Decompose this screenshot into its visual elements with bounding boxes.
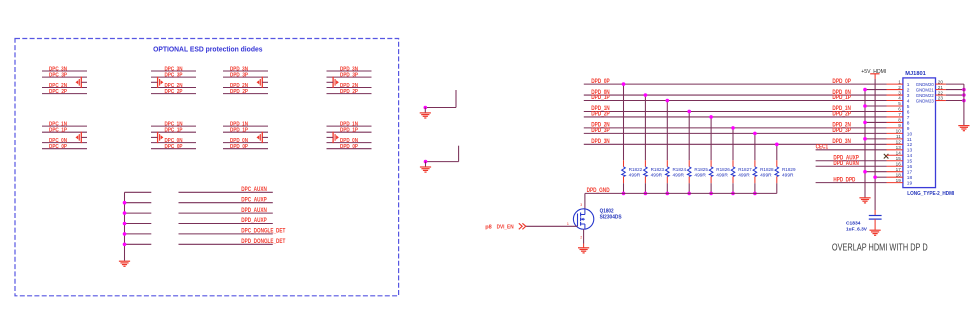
wire DPD_2P (ESD group 3): [223, 93, 268, 95]
svg-text:DPC_0N: DPC_0N: [49, 138, 67, 144]
wire +5V vertical: [874, 79, 876, 210]
svg-text:OPTIONAL ESD protection diodes: OPTIONAL ESD protection diodes: [153, 45, 262, 54]
wire pin 22 to shield gnd: [946, 94, 964, 96]
wire DPD_0P (net): [584, 83, 887, 85]
junction R1826 bottom: [709, 192, 713, 196]
resistor R1827 499R: [731, 128, 735, 193]
ESD diode pair (group 1): [76, 77, 88, 88]
wire DPD_3P (net): [584, 132, 887, 134]
svg-text:DPC_2P: DPC_2P: [165, 89, 183, 95]
junction GND pin 2: [863, 88, 867, 92]
svg-text:DPC_3P: DPC_3P: [165, 72, 183, 78]
junction R1825 bottom: [687, 192, 691, 196]
svg-text:DPC_1N: DPC_1N: [49, 121, 67, 127]
wire DPD_2N (ESD group 4): [327, 87, 372, 89]
svg-text:DPD_0P: DPD_0P: [340, 144, 358, 150]
wire: bus stub row 2: [125, 202, 152, 204]
svg-text:DPD_3P: DPD_3P: [591, 128, 610, 134]
svg-text:DPC_DONGLE_DET: DPC_DONGLE_DET: [241, 229, 285, 235]
wire: ground 2 drop: [425, 162, 427, 167]
svg-text:499R: 499R: [716, 172, 728, 178]
wire DPD_1N (net): [584, 110, 887, 112]
junction pin 23: [962, 99, 966, 103]
svg-text:C1834: C1834: [846, 221, 861, 227]
svg-text:DPD_1P: DPD_1P: [230, 128, 248, 134]
svg-text:19: 19: [907, 181, 913, 187]
ESD diode pair (group 5): [76, 132, 88, 143]
wire DPD_AUXP: [816, 160, 887, 162]
junction: [123, 222, 127, 226]
svg-text:DPC_3N: DPC_3N: [165, 66, 183, 72]
connector MJ1801 body: [903, 78, 936, 188]
junction: [424, 106, 428, 110]
junction: [123, 243, 127, 247]
wire pin 8 to GND: [865, 121, 887, 123]
svg-text:SI2304DS: SI2304DS: [600, 215, 623, 221]
svg-text:499R: 499R: [694, 172, 706, 178]
svg-text:1: 1: [567, 221, 570, 226]
wire DPC_2P (ESD group 2): [151, 93, 196, 95]
svg-text:2: 2: [898, 85, 901, 90]
wire DPD_AUXN: [816, 165, 887, 167]
wire DPD_AUXN: [179, 212, 273, 214]
wire DPD_1N (ESD group 7): [223, 125, 268, 127]
svg-text:DPD_3N: DPD_3N: [591, 139, 610, 145]
svg-text:18: 18: [907, 175, 913, 181]
svg-text:499R: 499R: [760, 172, 772, 178]
junction R1827 top: [731, 126, 735, 130]
pin 17 stub: [887, 171, 903, 173]
ground (shield): [958, 126, 969, 131]
svg-text:8: 8: [898, 118, 901, 123]
power +5V_HDMI: [861, 69, 886, 79]
wire: source to ground: [583, 229, 585, 243]
wire DPC_2P (ESD group 1): [42, 93, 87, 95]
wire DPD_1P (net): [584, 100, 887, 102]
wire DPC_0N (ESD group 6): [151, 142, 196, 144]
wire DPD_0P (ESD group 7): [223, 148, 268, 150]
wire DPC_1P (ESD group 5): [42, 131, 87, 133]
svg-text:DPD_GND: DPD_GND: [587, 188, 611, 194]
svg-text:DPC_2P: DPC_2P: [49, 89, 67, 95]
wire: bus stub row 5: [125, 233, 152, 235]
svg-text:DPD_3N: DPD_3N: [340, 66, 358, 72]
wire DPD_3N (net): [584, 143, 887, 145]
wire DPC_DONGLE_DET: [179, 233, 273, 235]
svg-text:R1826: R1826: [716, 167, 730, 173]
wire DPD_1P (ESD group 8): [327, 131, 372, 133]
svg-text:499R: 499R: [629, 172, 641, 178]
wire DPC_2N (ESD group 1): [42, 87, 87, 89]
pin 6 stub: [887, 110, 903, 112]
wire: stub to ground 1: [425, 90, 456, 108]
wire DPD_2N (net): [584, 127, 887, 129]
svg-text:499R: 499R: [651, 172, 663, 178]
pin 22 stub: [936, 94, 946, 96]
wire: ground 1 drop: [424, 108, 426, 113]
svg-text:17: 17: [907, 170, 913, 176]
wire DPC_1P (ESD group 6): [151, 131, 196, 133]
ESD diode pair (group 8): [327, 132, 339, 143]
svg-text:15: 15: [896, 156, 902, 161]
wire DPD_3N (ESD group 3): [223, 70, 268, 72]
resistor R1825 499R: [687, 111, 691, 193]
wire DPD_GND rail: [585, 193, 777, 209]
svg-text:DPC_AUXP: DPC_AUXP: [241, 197, 266, 203]
svg-text:2: 2: [907, 87, 910, 93]
ESD diode pair (group 6): [151, 132, 163, 143]
svg-text:DPD_AUXN: DPD_AUXN: [241, 208, 266, 214]
svg-text:DPD_0P: DPD_0P: [832, 79, 851, 85]
junction R1829 top: [775, 143, 779, 147]
wire DPC_AUXN: [179, 191, 273, 193]
junction R1827 bottom: [731, 192, 735, 196]
pin 4 stub: [887, 100, 903, 102]
svg-text:499R: 499R: [738, 172, 750, 178]
wire HPD_DPD: [816, 182, 887, 184]
junction pin 21: [962, 88, 966, 92]
wire: bus stub row 6: [125, 243, 152, 245]
wire DPC_2N (ESD group 2): [151, 87, 196, 89]
wire DPD_2N (ESD group 3): [223, 87, 268, 89]
pin 10 stub: [887, 132, 903, 134]
svg-text:DPD_1P: DPD_1P: [591, 95, 610, 101]
svg-text:DPC_0N: DPC_0N: [165, 138, 183, 144]
svg-text:DPC_3N: DPC_3N: [49, 66, 67, 72]
pin 3 stub: [887, 94, 903, 96]
svg-text:9: 9: [907, 126, 910, 132]
svg-text:DPC_0P: DPC_0P: [49, 144, 67, 150]
svg-text:R1827: R1827: [738, 167, 752, 173]
ground (Q1802 source): [578, 248, 589, 253]
svg-text:7: 7: [898, 112, 901, 117]
wire: stub to ground 2: [426, 146, 459, 162]
pin 2 stub: [887, 89, 903, 91]
svg-text:R1825: R1825: [694, 167, 708, 173]
wire DPD_AUXP: [179, 223, 273, 225]
svg-text:MJ1801: MJ1801: [905, 71, 926, 77]
svg-text:DPC_AUXN: DPC_AUXN: [241, 187, 266, 193]
svg-text:2: 2: [580, 236, 582, 240]
svg-text:DPD_2N: DPD_2N: [230, 83, 248, 89]
junction R1822 bottom: [622, 192, 626, 196]
junction GND pin 11: [863, 137, 867, 141]
wire DPC_1N (ESD group 6): [151, 125, 196, 127]
svg-text:23: 23: [938, 96, 944, 101]
svg-text:6: 6: [898, 107, 901, 112]
pin 19 stub: [887, 182, 903, 184]
svg-text:DPD_1N: DPD_1N: [340, 121, 358, 127]
junction GND pin 8: [863, 121, 867, 125]
svg-text:DPD_0N: DPD_0N: [230, 138, 248, 144]
svg-text:22: 22: [938, 90, 944, 95]
wire DPC_3N (ESD group 2): [151, 70, 196, 72]
svg-text:DPC_1P: DPC_1P: [49, 128, 67, 134]
wire: bus stub row 3: [125, 212, 152, 214]
svg-text:OVERLAP HDMI WITH DP D: OVERLAP HDMI WITH DP D: [832, 243, 928, 254]
svg-text:DPD_1P: DPD_1P: [340, 128, 358, 134]
svg-text:12: 12: [896, 140, 902, 145]
svg-text:3: 3: [898, 90, 901, 95]
svg-text:15: 15: [907, 159, 913, 165]
pin 1 stub: [887, 83, 903, 85]
svg-text:1: 1: [907, 82, 910, 88]
junction R1828 top: [753, 132, 757, 136]
svg-text:CEC1: CEC1: [816, 145, 829, 151]
svg-text:DPD_0N: DPD_0N: [340, 138, 358, 144]
no-connect X pin 14: [884, 154, 889, 159]
ground (C1834): [870, 230, 881, 235]
junction R1828 bottom: [753, 192, 757, 196]
wire GND vertical: [864, 90, 866, 198]
svg-text:R1828: R1828: [760, 167, 774, 173]
ESD diode pair (group 7): [257, 132, 269, 143]
svg-text:14: 14: [907, 153, 913, 159]
junction R1826 top: [709, 115, 713, 119]
ESD diode pair (group 3): [257, 77, 269, 88]
svg-text:DPD_2N: DPD_2N: [340, 83, 358, 89]
svg-text:499R: 499R: [673, 172, 685, 178]
junction GND pin 17: [863, 170, 867, 174]
pin 11 stub: [887, 138, 903, 140]
wire DPD_3P (ESD group 3): [223, 76, 268, 78]
svg-text:19: 19: [896, 178, 902, 183]
junction: [123, 211, 127, 215]
svg-text:DPD_3P: DPD_3P: [230, 72, 248, 78]
svg-text:6: 6: [907, 109, 910, 115]
wire: bus stub row 4: [125, 223, 152, 225]
svg-text:GNDM23: GNDM23: [916, 98, 934, 104]
wire DPC_AUXP: [179, 202, 273, 204]
svg-text:13: 13: [907, 148, 913, 154]
pin 7 stub: [887, 116, 903, 118]
resistor R1829 499R: [775, 144, 779, 193]
pin 13 stub: [887, 149, 903, 151]
svg-text:21: 21: [938, 85, 944, 90]
svg-text:1: 1: [898, 79, 901, 84]
ground (mid 2): [420, 167, 431, 172]
wire pin 2 to GND: [865, 89, 887, 91]
resistor R1828 499R: [753, 133, 757, 193]
junction: [123, 201, 127, 205]
svg-text:DPD_3N: DPD_3N: [230, 66, 248, 72]
wire DPD_0P (ESD group 8): [327, 148, 372, 150]
svg-text:Q1802: Q1802: [600, 208, 614, 214]
svg-text:DPD_DONGLE_DET: DPD_DONGLE_DET: [241, 239, 285, 245]
svg-text:GNDM20: GNDM20: [916, 82, 934, 88]
junction R1823 bottom: [644, 192, 648, 196]
wire DPD_0N (ESD group 7): [223, 142, 268, 144]
wire DPC_1N (ESD group 5): [42, 125, 87, 127]
wire DPC_0P (ESD group 5): [42, 148, 87, 150]
svg-text:DPC_2N: DPC_2N: [165, 83, 183, 89]
wire DPD_0N (ESD group 8): [327, 142, 372, 144]
svg-text:DPD_3P: DPD_3P: [340, 72, 358, 78]
wire: bus stub row 1: [125, 191, 152, 193]
svg-text:DPD_0P: DPD_0P: [591, 79, 610, 85]
svg-text:18: 18: [896, 172, 902, 177]
transistor Q1802 SI2304DS: [573, 209, 593, 229]
svg-text:GNDM21: GNDM21: [916, 87, 934, 93]
pin 21 stub: [936, 89, 946, 91]
wire DPD_2P (net): [584, 116, 887, 118]
resistor R1823 499R: [644, 95, 648, 193]
wire DPC_3P (ESD group 2): [151, 76, 196, 78]
svg-text:DPD_1P: DPD_1P: [832, 95, 851, 101]
junction R1823 top: [644, 93, 648, 97]
wire DPD_2P (ESD group 4): [327, 93, 372, 95]
svg-text:16: 16: [907, 164, 913, 170]
svg-text:R1822: R1822: [629, 167, 643, 173]
svg-text:499R: 499R: [782, 172, 794, 178]
resistor R1822 499R: [622, 84, 626, 193]
svg-text:4: 4: [898, 96, 901, 101]
svg-text:11: 11: [907, 137, 912, 143]
wire pin 17 to GND: [865, 171, 887, 173]
wire DPD_DONGLE_DET: [179, 243, 273, 245]
wire DPC_3N (ESD group 1): [42, 70, 87, 72]
svg-text:1uF_6.3V: 1uF_6.3V: [846, 226, 868, 232]
svg-text:5: 5: [898, 101, 901, 106]
svg-text:14: 14: [896, 150, 902, 155]
wire pin 20 to shield gnd: [946, 83, 964, 85]
wire pin 5 to GND: [865, 105, 887, 107]
svg-text:DPD_0P: DPD_0P: [230, 144, 248, 150]
svg-text:R1824: R1824: [673, 167, 687, 173]
dashed border: optional ESD protection diodes block: [15, 39, 399, 296]
svg-text:20: 20: [938, 79, 944, 84]
svg-text:DPD_2P: DPD_2P: [340, 89, 358, 95]
pin 20 stub: [936, 83, 946, 85]
junction: [424, 160, 428, 164]
off-page connector chevron: [519, 223, 526, 229]
junction pin 22: [962, 93, 966, 97]
svg-text:7: 7: [907, 115, 910, 121]
svg-text:13: 13: [896, 145, 902, 150]
svg-text:GNDM22: GNDM22: [916, 93, 934, 99]
svg-text:DPC_3P: DPC_3P: [49, 72, 67, 78]
resistor R1824 499R: [666, 101, 670, 194]
pin 14 stub: [887, 154, 903, 156]
svg-text:HPD_DPD: HPD_DPD: [833, 177, 856, 183]
svg-text:R1829: R1829: [782, 167, 796, 173]
svg-text:DPC_2N: DPC_2N: [49, 83, 67, 89]
ESD diode pair (group 4): [327, 77, 339, 88]
svg-text:p8: p8: [485, 224, 492, 230]
svg-text:DPD_AUXN: DPD_AUXN: [833, 161, 859, 167]
wire CEC1: [816, 149, 887, 151]
pin 12 stub: [887, 143, 903, 145]
pin 15 stub: [887, 160, 903, 162]
wire DPD_3N (ESD group 4): [327, 70, 372, 72]
svg-text:DPD_3P: DPD_3P: [832, 128, 851, 134]
svg-text:10: 10: [907, 131, 913, 137]
svg-text:3: 3: [580, 203, 582, 207]
svg-text:DPC_1N: DPC_1N: [165, 121, 183, 127]
wire DPC_3P (ESD group 1): [42, 76, 87, 78]
wire DPD_1P (ESD group 7): [223, 131, 268, 133]
pin 18 stub: [887, 176, 903, 178]
capacitor C1834 1uF_6.3V: [869, 210, 882, 230]
wire shield vertical: [963, 84, 965, 125]
junction R1824 bottom: [666, 192, 670, 196]
wire DPD_0N (net): [584, 94, 887, 96]
svg-text:DPD_2P: DPD_2P: [591, 112, 610, 118]
svg-text:LONG_TYPE-2_HDMI: LONG_TYPE-2_HDMI: [907, 191, 955, 197]
junction GND pin 5: [863, 104, 867, 108]
wire pin 21 to shield gnd: [946, 89, 964, 91]
svg-text:12: 12: [907, 142, 913, 148]
ground (aux bus): [119, 261, 130, 266]
svg-text:DPC_1P: DPC_1P: [165, 128, 183, 134]
pin 5 stub: [887, 105, 903, 107]
ground (connector shield): [859, 198, 870, 203]
svg-text:5: 5: [907, 104, 910, 110]
svg-text:3: 3: [907, 93, 910, 99]
pin 23 stub: [936, 100, 946, 102]
wire DPD_1N (ESD group 8): [327, 125, 372, 127]
ground (mid 1): [420, 113, 431, 118]
svg-text:DPC_0P: DPC_0P: [165, 144, 183, 150]
svg-text:16: 16: [896, 161, 902, 166]
wire DPC_0N (ESD group 5): [42, 142, 87, 144]
svg-text:17: 17: [896, 167, 902, 172]
resistor R1826 499R: [709, 117, 713, 193]
svg-text:8: 8: [907, 120, 910, 126]
svg-text:10: 10: [896, 129, 902, 134]
svg-text:DPD_3N: DPD_3N: [832, 139, 851, 145]
svg-text:DPD_1N: DPD_1N: [230, 121, 248, 127]
svg-text:DVI_EN: DVI_EN: [497, 224, 514, 230]
svg-text:DPD_2P: DPD_2P: [230, 89, 248, 95]
junction: [123, 232, 127, 236]
junction R1825 top: [687, 110, 691, 114]
svg-text:DPD_AUXP: DPD_AUXP: [241, 218, 266, 224]
svg-text:DPD_2P: DPD_2P: [832, 112, 851, 118]
svg-text:11: 11: [896, 134, 901, 139]
junction +5V pin 18: [873, 175, 877, 179]
junction R1822 top: [622, 82, 626, 86]
wire pin 18 to +5V: [875, 176, 886, 178]
ESD diode pair (group 2): [151, 77, 163, 88]
wire DPD_3P (ESD group 4): [327, 76, 372, 78]
wire DVI_EN to gate: [526, 225, 578, 227]
pin 16 stub: [887, 165, 903, 167]
wire: aux bus vertical: [124, 192, 126, 260]
svg-text:4: 4: [907, 98, 910, 104]
pin 9 stub: [887, 127, 903, 129]
pin 8 stub: [887, 121, 903, 123]
svg-text:R1823: R1823: [651, 167, 665, 173]
junction R1824 top: [666, 99, 670, 103]
wire DPC_0P (ESD group 6): [151, 148, 196, 150]
wire pin 23 to shield gnd: [946, 100, 964, 102]
wire pin 11 to GND: [865, 138, 887, 140]
svg-text:9: 9: [898, 123, 901, 128]
